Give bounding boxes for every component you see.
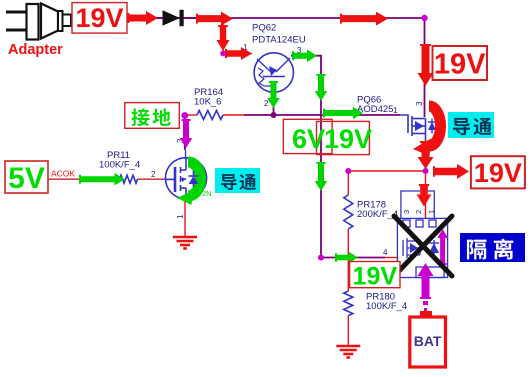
wire 19V node down into PQ3 package top	[425, 171, 427, 219]
svg-text:1: 1	[427, 210, 436, 214]
resistor PR180	[344, 291, 353, 316]
magenta arrow up from BAT	[418, 263, 434, 298]
diode D1	[156, 10, 197, 26]
wire ground-net vertical from node to QA1 drain	[184, 115, 186, 150]
svg-text:4: 4	[383, 248, 388, 257]
green arrow right into PQ66 gate	[324, 107, 363, 119]
red arrow 19V out of adapter box	[129, 11, 159, 25]
svg-text:2: 2	[414, 210, 423, 214]
svg-text:19V: 19V	[474, 158, 522, 188]
wire PQ62 pin2 down to node	[273, 92, 275, 115]
label box jiedi (ground)	[125, 103, 180, 129]
svg-text:3: 3	[415, 101, 424, 106]
red arrow into PQ62 pin1	[226, 47, 252, 60]
wire horizontal gate net y=115	[185, 114, 197, 116]
node dot divider bottom corner	[318, 255, 324, 261]
svg-text:ACOK: ACOK	[51, 169, 75, 179]
wire right vertical drain rail	[424, 18, 426, 117]
svg-text:5V: 5V	[8, 162, 45, 195]
svg-text:19V: 19V	[324, 124, 372, 154]
magenta arrow down ground-net	[180, 120, 192, 148]
wire 19V node horizontal to PR178 top	[348, 170, 425, 172]
svg-text:100K/F_4: 100K/F_4	[366, 301, 407, 312]
resistor PR178	[344, 195, 353, 229]
svg-text:6V: 6V	[292, 124, 325, 154]
red arrow before top-right corner	[341, 12, 388, 26]
QA1 green ON crescent	[188, 162, 201, 196]
svg-text:19V: 19V	[75, 3, 123, 33]
red arrow down to PQ62 base stub	[217, 26, 230, 51]
battery BAT box	[420, 311, 432, 318]
label geli (isolated)	[460, 233, 525, 262]
green arrow right on pin4 wire	[336, 252, 358, 263]
red arrow down right rail 19V	[418, 45, 434, 86]
svg-text:2: 2	[151, 170, 156, 179]
MOSFET QA1	[165, 158, 207, 199]
wire PQ66 source down to 19V node	[425, 140, 427, 171]
wire ACOK from 5V box through PR11 to QA1 gate	[48, 178, 120, 180]
transistor PQ62 (PDTA124EU)	[254, 53, 293, 96]
wire PQ62 pin3 to vertical net	[291, 56, 321, 258]
magenta arrow up inside PQ3	[437, 229, 448, 264]
svg-text:AOD425: AOD425	[357, 104, 393, 115]
red arrow down PQ66 source	[418, 142, 434, 169]
resistor PR164	[197, 111, 223, 120]
wire horizontal y=257.5 to PQ3 gate pin4	[321, 257, 385, 259]
label box 19V top-left	[72, 3, 127, 33]
red arrow right into mid 19V box	[434, 164, 469, 179]
svg-text:10K_6: 10K_6	[194, 97, 221, 108]
label box 5V	[5, 161, 48, 193]
green arrow down vertical net lower	[315, 163, 327, 191]
PQ66 body diode	[431, 119, 433, 134]
svg-text:1: 1	[176, 214, 185, 219]
svg-text:2: 2	[264, 99, 269, 108]
svg-text:PQ62: PQ62	[252, 23, 276, 34]
QA1 body diode glyph over green	[193, 171, 195, 187]
svg-text:1: 1	[393, 106, 398, 115]
green arrow PQ62 pin3	[293, 50, 317, 63]
label box 19V green overlapping	[317, 121, 370, 154]
PQ3 body diode	[433, 240, 435, 256]
svg-text:19V: 19V	[353, 263, 398, 291]
dual MOSFET PQ3 package body	[397, 218, 447, 277]
magenta dashes to BAT	[423, 301, 428, 305]
resistor PR11	[120, 175, 138, 183]
MOSFET PQ66	[400, 115, 426, 140]
node dot PQ62 base corner	[220, 51, 226, 57]
PQ66 red ON crescent	[429, 106, 441, 146]
label box 19V right-mid	[471, 156, 525, 188]
adapter plug icon	[6, 4, 71, 40]
node dot gate-net left	[181, 112, 188, 119]
svg-text:BAT: BAT	[414, 333, 442, 349]
ground under QA1	[173, 237, 197, 249]
red arrow after diode	[197, 12, 233, 26]
wire stub to PQ62 pin1	[223, 18, 252, 54]
node dot divider top	[345, 168, 351, 174]
node dot top-right corner	[421, 15, 427, 21]
isolation X cross	[394, 216, 452, 276]
label box 6V	[283, 119, 332, 153]
label box 19V bottom green	[350, 262, 400, 288]
ground bottom	[336, 346, 360, 358]
wire QA1 source to ground	[184, 200, 186, 238]
red arrow down into PQ3 package	[417, 185, 432, 207]
green arrow down vertical net upper	[315, 75, 327, 101]
svg-text:100K/F_4: 100K/F_4	[99, 160, 140, 171]
svg-text:Adapter: Adapter	[8, 42, 63, 58]
dual MOSFET PQ3 package top pin bracket	[401, 191, 434, 219]
wire PR178/PR180 vertical divider	[347, 171, 349, 195]
green arrow PQ62 pin2 down	[267, 82, 280, 108]
svg-text:2N: 2N	[202, 189, 212, 198]
node dot PQ62 emitter junction	[271, 112, 277, 118]
node dot 19V mid node	[423, 168, 429, 174]
label daotong 1 (QA1 on)	[215, 168, 260, 193]
green arrow ACOK	[80, 173, 125, 186]
svg-text:19V: 19V	[434, 49, 486, 81]
wire top 19V rail	[127, 17, 425, 19]
label box 19V right-top	[433, 46, 488, 80]
label daotong 2 (PQ66 on)	[448, 112, 494, 138]
svg-text:3: 3	[402, 210, 411, 214]
svg-text:PDTA124EU: PDTA124EU	[252, 35, 306, 46]
